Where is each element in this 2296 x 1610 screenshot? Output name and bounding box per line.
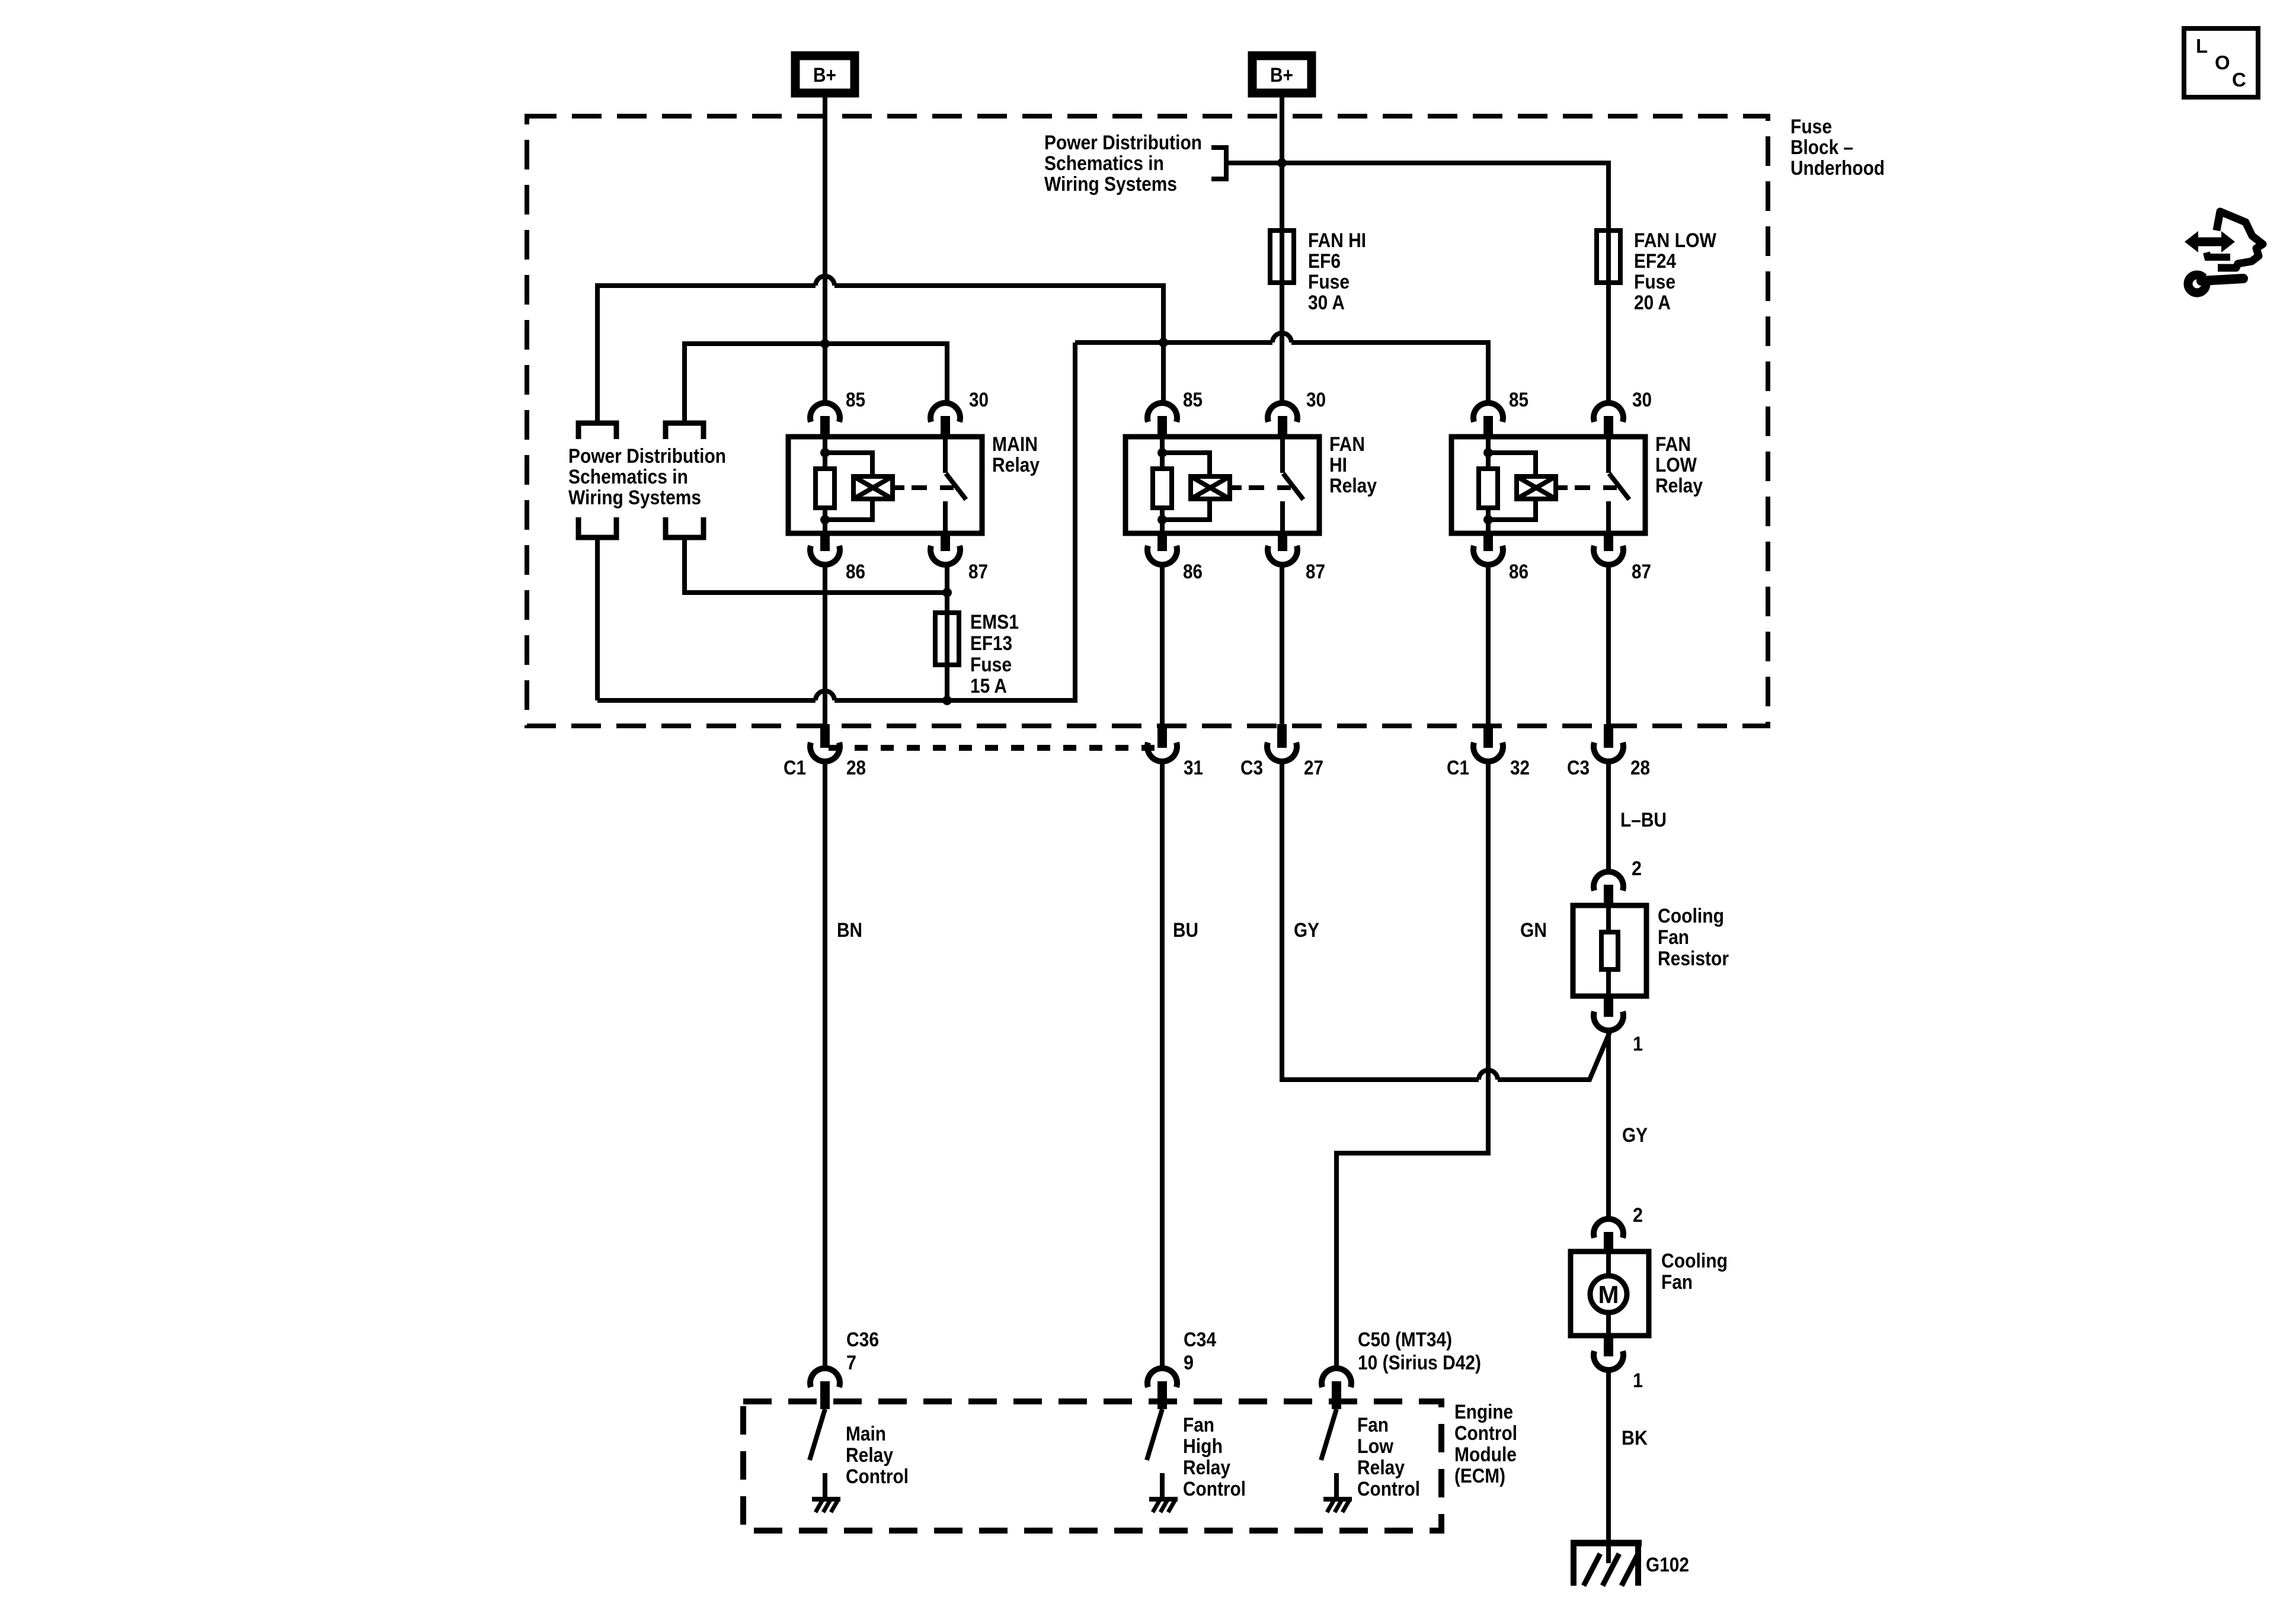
svg-text:Fuse: Fuse	[970, 654, 1012, 676]
relay FAN LOW relay K3 pin 30 connector	[1594, 403, 1623, 422]
svg-text:Main: Main	[846, 1423, 886, 1445]
svg-text:Relay: Relay	[1655, 475, 1703, 497]
svg-text:(ECM): (ECM)	[1454, 1465, 1505, 1487]
connector pin 31 at fuse block exit (BU)	[1157, 724, 1167, 748]
cooling fan resistor element	[1606, 905, 1611, 932]
svg-text:EMS1: EMS1	[970, 611, 1019, 633]
svg-text:L: L	[2196, 35, 2208, 57]
fuse FAN LOW EF24 20A	[1597, 231, 1620, 283]
svg-text:Relay: Relay	[992, 454, 1040, 476]
ground (ECM internal)	[1323, 1497, 1352, 1502]
service action icon (double arrow, part outline, wrench)	[2185, 212, 2263, 293]
svg-text:C50 (MT34): C50 (MT34)	[1358, 1329, 1452, 1351]
connector body dotted line C1	[829, 745, 1162, 751]
wire FAN HI 87 down to boundary	[1280, 563, 1284, 726]
svg-text:30: 30	[1632, 389, 1652, 411]
wire GY: FAN HI 87 to cooling fan resistor pin 1	[1282, 760, 1479, 1080]
junction dot bus A at B+1 wire	[820, 339, 830, 348]
relay FAN HI relay K2 pin 86 connector	[1157, 533, 1167, 551]
svg-text:Control: Control	[1454, 1422, 1517, 1445]
svg-text:Relay: Relay	[1183, 1457, 1230, 1479]
svg-text:O: O	[2215, 52, 2230, 73]
svg-text:EF6: EF6	[1308, 250, 1341, 273]
svg-text:30: 30	[1306, 389, 1326, 411]
svg-text:Schematics in: Schematics in	[1044, 152, 1164, 175]
svg-text:85: 85	[1509, 389, 1528, 411]
svg-text:Fan: Fan	[1183, 1414, 1214, 1436]
svg-text:20 A: 20 A	[1634, 292, 1671, 314]
wire GN: FAN LOW 86 to ECM fan low control	[1336, 760, 1488, 1370]
svg-text:BK: BK	[1622, 1427, 1648, 1449]
svg-text:Schematics in: Schematics in	[568, 466, 688, 488]
svg-text:Module: Module	[1454, 1443, 1517, 1466]
svg-text:Power Distribution: Power Distribution	[1044, 132, 1202, 154]
bracket symbol (power distribution tap)	[1211, 148, 1226, 179]
switch Fan Low driver in ECM	[1321, 1409, 1336, 1460]
junction dot EMS1 output on bus	[942, 696, 952, 705]
svg-text:BN: BN	[837, 919, 862, 942]
wire ground-side bus y=1182	[597, 698, 816, 703]
off-page connector stub 1 (Power Distribution) top bracket	[578, 423, 616, 439]
relay FAN HI relay K2 coil (solenoid) branch	[1162, 453, 1210, 476]
wire stub1 top riser	[595, 420, 600, 423]
svg-text:GY: GY	[1622, 1124, 1648, 1147]
wire segment B y=578 (EMS1 output riser to FAN relay coils)	[1075, 340, 1272, 345]
svg-text:FAN: FAN	[1655, 433, 1691, 456]
svg-text:Cooling: Cooling	[1658, 905, 1724, 927]
engine control module (ECM) dashed box	[743, 1401, 1441, 1531]
relay MAIN relay K1 coil resistor	[823, 437, 827, 453]
svg-text:BU: BU	[1173, 919, 1198, 942]
wire B+ terminal 1 down to MAIN relay coil pin 85	[823, 93, 827, 405]
cooling fan box	[1571, 1251, 1649, 1336]
relay FAN LOW relay K3 coil resistor	[1486, 437, 1491, 453]
svg-text:GY: GY	[1294, 919, 1319, 942]
switch Main Relay driver in ECM	[810, 1409, 825, 1460]
svg-text:2: 2	[1633, 1204, 1643, 1227]
svg-text:Fuse: Fuse	[1634, 271, 1675, 293]
junction dot EMS1 input	[942, 588, 952, 597]
fuse block - underhood dashed boundary box	[527, 116, 1768, 726]
svg-text:Engine: Engine	[1454, 1401, 1513, 1423]
svg-text:Resistor: Resistor	[1658, 948, 1729, 970]
svg-text:C36: C36	[846, 1329, 879, 1351]
svg-text:M: M	[1598, 1281, 1619, 1308]
junction dot at B+ feed x=2163 y=275	[1277, 158, 1287, 168]
ground G102 symbol	[1571, 1540, 1642, 1547]
off-page connector stub 2 top bracket	[666, 423, 703, 439]
wire MAIN relay pin 86 down (BN circuit)	[823, 563, 827, 726]
relay MAIN relay K1 switch blade (pin 30 to 87)	[943, 437, 948, 473]
svg-text:Block –: Block –	[1790, 136, 1853, 159]
relay FAN HI relay K2 coil resistor	[1160, 437, 1165, 453]
svg-text:31: 31	[1184, 757, 1203, 779]
svg-text:87: 87	[1632, 561, 1651, 583]
svg-text:Fan: Fan	[1357, 1414, 1389, 1436]
svg-text:G102: G102	[1646, 1554, 1689, 1576]
wire BN: MAIN relay control to ECM	[823, 760, 827, 1370]
svg-text:87: 87	[1306, 561, 1325, 583]
wire FAN HI 86 down to boundary	[1160, 563, 1165, 726]
relay MAIN relay K1 pin 87 connector	[941, 533, 950, 551]
svg-text:FAN: FAN	[1329, 433, 1365, 456]
connector C36 pin at ECM	[810, 1368, 840, 1387]
relay FAN HI relay K2 pin 30 connector	[1268, 403, 1297, 422]
svg-text:32: 32	[1510, 757, 1530, 779]
ground (ECM internal)	[812, 1497, 840, 1502]
svg-text:28: 28	[1630, 757, 1650, 779]
connector C1-28 at fuse block exit (BN)	[820, 724, 830, 748]
svg-text:Relay: Relay	[846, 1444, 893, 1467]
fuse EMS1 EF13 15A	[935, 613, 959, 665]
relay FAN HI relay K2 switch blade (pin 30 to 87)	[1280, 437, 1285, 473]
svg-text:C3: C3	[1567, 757, 1590, 779]
svg-text:HI: HI	[1329, 454, 1347, 476]
relay FAN HI relay K2 actuator dashed link	[1230, 485, 1242, 490]
wire EF6 fuse to FAN HI relay pin 30	[1280, 283, 1284, 405]
svg-text:87: 87	[968, 561, 988, 583]
connector C3-27 at fuse block exit (GY)	[1277, 724, 1287, 748]
svg-text:15 A: 15 A	[970, 675, 1007, 697]
svg-text:C34: C34	[1184, 1329, 1216, 1351]
relay FAN HI relay K2 internal junction dots	[1157, 448, 1167, 457]
relay MAIN relay K1 box	[788, 437, 982, 533]
svg-text:C3: C3	[1240, 757, 1263, 779]
relay FAN LOW relay K3 pin 85 connector	[1473, 403, 1503, 422]
wire B+ terminal 2 down to FAN HI fuse	[1280, 93, 1284, 231]
svg-text:EF13: EF13	[970, 632, 1012, 655]
svg-text:85: 85	[1183, 389, 1203, 411]
relay FAN LOW relay K3 coil (solenoid) branch	[1488, 453, 1536, 476]
wire segment A y=580 (B+1 to MAIN relay pins 85/30 and PD stub2)	[685, 344, 947, 420]
connector C1-32 at fuse block exit (GN)	[1483, 724, 1493, 748]
LOC legend box icon	[2184, 28, 2258, 97]
wire stub2 bottom to EMS1 fuse input	[685, 537, 945, 593]
relay MAIN relay K1 internal junction dots	[820, 448, 830, 457]
ground (ECM internal)	[1149, 1497, 1178, 1502]
svg-text:10 (Sirius D42): 10 (Sirius D42)	[1358, 1352, 1481, 1374]
relay MAIN relay K1 pin 85 connector	[810, 403, 840, 422]
svg-text:30 A: 30 A	[1308, 292, 1345, 314]
svg-text:Wiring Systems: Wiring Systems	[568, 486, 701, 509]
wire through fuse x=2714	[1606, 231, 1611, 283]
svg-text:Low: Low	[1357, 1435, 1393, 1458]
relay MAIN relay K1 pin 30 connector	[930, 403, 960, 422]
wire bus1 (B+ branch to PD stub1 and FAN HI coil riser) y=482	[597, 286, 816, 420]
wire resistor pin 1 down to cooling fan (GY)	[1606, 1029, 1611, 1220]
relay MAIN relay K1 pin 86 connector	[820, 533, 830, 551]
svg-text:Relay: Relay	[1357, 1457, 1405, 1479]
off-page connector stub 1 bottom bracket	[578, 517, 616, 537]
wire through fuse x=1598	[945, 613, 949, 665]
svg-text:2: 2	[1632, 857, 1642, 880]
relay MAIN relay K1 coil (solenoid) branch	[825, 453, 872, 476]
relay FAN LOW relay K3 box	[1451, 437, 1645, 533]
svg-text:LOW: LOW	[1655, 454, 1697, 476]
svg-text:C1: C1	[1447, 757, 1469, 779]
svg-text:1: 1	[1633, 1033, 1643, 1055]
connector C34 pin at ECM	[1147, 1368, 1177, 1387]
motor M circle of cooling fan	[1606, 1251, 1611, 1276]
junction dot segment B at FAN HI coil drop x=1963	[1159, 338, 1168, 347]
svg-text:B+: B+	[1270, 64, 1293, 87]
svg-text:Fuse: Fuse	[1308, 271, 1350, 293]
svg-text:GN: GN	[1520, 919, 1547, 942]
wire PD tap to EF24 fuse drop	[1226, 163, 1609, 231]
connector C50 (MT34) pin at ECM	[1322, 1368, 1351, 1387]
svg-text:Cooling: Cooling	[1661, 1250, 1728, 1272]
relay MAIN relay K1 actuator dashed link	[893, 485, 904, 490]
wire FAN HI coil drop x=1963	[1161, 343, 1166, 405]
svg-text:Control: Control	[846, 1465, 909, 1488]
wire FAN LOW 87 down to boundary	[1606, 563, 1611, 726]
svg-text:Control: Control	[1183, 1478, 1246, 1500]
wire through fuse x=2163	[1280, 231, 1284, 283]
wire stub1 bottom to ground-side bus	[595, 537, 600, 700]
svg-text:C1: C1	[784, 757, 806, 779]
connector pin 1 of cooling fan resistor	[1604, 996, 1613, 1017]
power terminal B+ (x=2163)	[1252, 56, 1312, 93]
relay FAN HI relay K2 pin 87 connector	[1278, 533, 1287, 551]
svg-text:High: High	[1183, 1435, 1223, 1458]
svg-text:L–BU: L–BU	[1620, 809, 1667, 831]
svg-text:9: 9	[1184, 1352, 1194, 1374]
svg-text:Fuse: Fuse	[1790, 116, 1832, 138]
svg-text:27: 27	[1304, 757, 1323, 779]
svg-text:Fan: Fan	[1658, 926, 1689, 949]
connector pin 1 of cooling fan	[1604, 1336, 1613, 1356]
svg-text:86: 86	[1183, 561, 1203, 583]
svg-text:1: 1	[1633, 1369, 1643, 1392]
wire EMS1 fuse output to ground-side bus	[945, 665, 949, 700]
svg-text:FAN HI: FAN HI	[1308, 229, 1366, 252]
svg-text:FAN LOW: FAN LOW	[1634, 229, 1717, 252]
svg-text:B+: B+	[813, 64, 836, 87]
svg-text:EF24: EF24	[1634, 250, 1676, 273]
power terminal B+ (x=1392)	[795, 56, 855, 93]
svg-text:Fan: Fan	[1661, 1271, 1693, 1294]
relay FAN HI relay K2 pin 85 connector	[1147, 403, 1177, 422]
svg-text:Power Distribution: Power Distribution	[568, 445, 726, 468]
relay FAN LOW relay K3 actuator dashed link	[1556, 485, 1568, 490]
svg-text:C: C	[2232, 69, 2246, 91]
svg-text:86: 86	[1509, 561, 1528, 583]
wire stub2 top riser	[682, 420, 687, 423]
wire BK: cooling fan to ground G102	[1606, 1368, 1611, 1563]
cooling fan resistor R box	[1573, 905, 1646, 996]
relay FAN LOW relay K3 pin 86 connector	[1483, 533, 1493, 551]
wire MAIN relay pin 87 to EMS1 fuse	[945, 563, 949, 613]
wire EF24 fuse to FAN LOW relay pin 30	[1606, 283, 1611, 405]
off-page connector stub 2 bottom bracket	[666, 517, 703, 537]
relay FAN LOW relay K3 switch blade (pin 30 to 87)	[1606, 437, 1611, 473]
svg-text:86: 86	[846, 561, 865, 583]
svg-text:85: 85	[846, 389, 865, 411]
svg-text:30: 30	[969, 389, 989, 411]
svg-text:MAIN: MAIN	[992, 433, 1038, 456]
svg-text:Relay: Relay	[1329, 475, 1377, 497]
relay FAN LOW relay K3 internal junction dots	[1483, 448, 1493, 457]
svg-text:7: 7	[846, 1352, 856, 1374]
fuse FAN HI EF6 30A	[1270, 231, 1294, 283]
switch Fan High driver in ECM	[1147, 1409, 1162, 1460]
relay FAN LOW relay K3 pin 87 connector	[1604, 533, 1613, 551]
wire FAN LOW 86 down to boundary	[1486, 563, 1491, 726]
svg-text:Underhood: Underhood	[1790, 157, 1885, 180]
svg-text:28: 28	[846, 757, 866, 779]
svg-text:Wiring Systems: Wiring Systems	[1044, 173, 1177, 196]
wire L-BU: FAN LOW 87 to cooling fan resistor pin 2	[1606, 760, 1611, 873]
svg-text:Control: Control	[1357, 1478, 1420, 1500]
connector C3-28 at fuse block exit (L-BU)	[1604, 724, 1613, 748]
relay FAN HI relay K2 box	[1125, 437, 1319, 533]
wire BU: FAN HI relay control to ECM	[1160, 760, 1165, 1370]
